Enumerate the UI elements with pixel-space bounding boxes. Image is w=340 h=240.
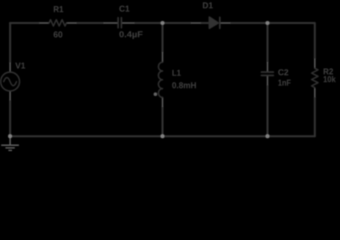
wire bottom rail — [10, 135, 315, 137]
label R1 — [54, 6, 63, 12]
resistor R1 — [49, 20, 66, 26]
label R2 — [324, 68, 333, 74]
AC source V1 circle — [1, 72, 20, 91]
AC source V1 sine — [4, 78, 17, 86]
C2 leads — [267, 62, 269, 85]
capacitor C2 — [261, 72, 273, 75]
wire C2 top junction down — [267, 23, 269, 62]
resistor R2 — [312, 68, 318, 87]
R1 leads — [39, 22, 76, 24]
wire anode stub at D1 — [201, 22, 210, 24]
diode D1 — [209, 17, 218, 28]
V1 leads — [9, 63, 11, 101]
label C2 — [278, 69, 288, 75]
L1 leads — [162, 52, 164, 107]
D1 leads — [191, 22, 230, 24]
label 60 — [54, 31, 63, 37]
wire D1 cathode to top-right corner down to R2 — [230, 23, 314, 59]
label 1nF — [278, 80, 290, 86]
ground — [1, 136, 19, 150]
wire V1 to ground node — [9, 100, 11, 136]
wire left rail down to V1 — [9, 23, 11, 63]
node junction bottom C2 — [265, 134, 269, 138]
inductor winding dot — [154, 92, 158, 96]
node junction bottom ground — [8, 134, 12, 138]
R2 leads — [314, 59, 316, 98]
wire C2 bottom to rail — [267, 85, 269, 136]
capacitor C1 — [118, 18, 121, 28]
wire C1 to D1 (through L1 top junction) — [134, 22, 191, 24]
wire R2 bottom to bottom rail — [314, 97, 316, 136]
label 0.4µF — [119, 31, 142, 39]
wire top rail: source corner to R1 — [10, 22, 39, 24]
wire L1 bottom to rail — [162, 107, 164, 136]
inductor L1 coil — [158, 62, 162, 97]
label C1 — [119, 6, 129, 12]
label 10k — [324, 76, 336, 82]
node junction top L1 — [160, 21, 164, 25]
wire L1 top junction down — [162, 23, 164, 52]
node junction top C2 — [265, 21, 269, 25]
label 0.8mH — [172, 82, 196, 88]
label V1 — [15, 63, 25, 69]
wire R1 to C1 — [77, 22, 104, 24]
node junction bottom L1 — [160, 134, 164, 138]
label L1 — [172, 70, 180, 76]
label D1 — [203, 2, 213, 8]
C1 leads — [104, 22, 135, 24]
